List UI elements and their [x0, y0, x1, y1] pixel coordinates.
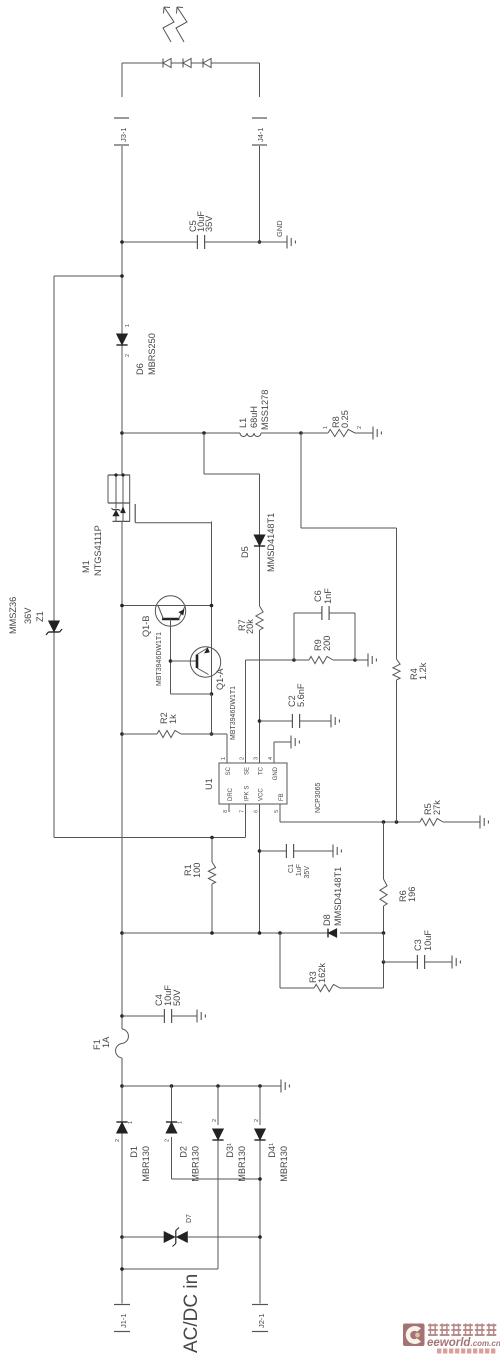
- svg-text:2: 2: [254, 1119, 260, 1122]
- fuse F1: [92, 1029, 128, 1058]
- svg-text:L1: L1: [238, 418, 248, 428]
- node lower/R3: [278, 931, 282, 935]
- svg-text:Q1-A: Q1-A: [215, 668, 225, 690]
- svg-text:1: 1: [323, 426, 329, 429]
- node R4 tap: [299, 431, 303, 435]
- wire base to collector link: [171, 693, 212, 695]
- svg-text:MBR130: MBR130: [141, 1146, 151, 1182]
- svg-text:196: 196: [407, 887, 417, 902]
- svg-text:D6: D6: [135, 363, 145, 375]
- svg-text:1: 1: [125, 324, 131, 327]
- svg-text:VCC: VCC: [259, 788, 265, 801]
- wire D4 branch: [259, 1086, 261, 1304]
- wire LED branch: [122, 63, 260, 97]
- svg-text:1uF: 1uF: [296, 864, 303, 876]
- node D3 junction: [216, 1084, 220, 1088]
- svg-text:MBRS250: MBRS250: [147, 333, 157, 375]
- svg-text:2: 2: [240, 757, 246, 760]
- svg-text:C3: C3: [413, 939, 423, 951]
- node D4/D2 junction: [258, 1177, 262, 1181]
- svg-text:NTGS4111P: NTGS4111P: [93, 525, 103, 576]
- svg-text:M1: M1: [81, 560, 91, 573]
- svg-text:1: 1: [221, 757, 227, 760]
- resistor R7: [237, 606, 263, 634]
- svg-text:MBR130: MBR130: [191, 1146, 201, 1182]
- wire TC path: [204, 433, 260, 763]
- ground GND net at C5: [260, 220, 296, 249]
- TVS diode D7: [164, 1214, 193, 1247]
- LED light emission arrow 2: [176, 7, 187, 42]
- diode D6: [116, 324, 157, 375]
- svg-text:1nF: 1nF: [323, 588, 333, 604]
- svg-text:MBR130: MBR130: [279, 1146, 289, 1182]
- svg-text:NCP3065: NCP3065: [315, 783, 322, 813]
- wire D7 branch: [122, 1236, 260, 1238]
- resistor R3: [280, 933, 384, 992]
- node L1 branch on rail: [120, 431, 124, 435]
- svg-text:Z1: Z1: [35, 611, 45, 622]
- svg-text:GND: GND: [273, 766, 279, 780]
- svg-text:MSS1278: MSS1278: [260, 390, 270, 430]
- wire D3 branch: [122, 1086, 218, 1269]
- wire SE path: [246, 660, 295, 763]
- node C3 junction: [382, 960, 386, 964]
- op-amp U1 NCP3065: [204, 757, 322, 813]
- svg-text:FB: FB: [279, 793, 285, 801]
- wire Q1 collector rail: [122, 605, 212, 607]
- transistor M1 NTGS4111P: [81, 473, 212, 576]
- wire lower vertical: [122, 932, 384, 934]
- wire VCC path: [259, 804, 261, 933]
- svg-text:J2-1: J2-1: [257, 1313, 266, 1328]
- svg-text:D5: D5: [240, 546, 250, 558]
- svg-text:MBR130: MBR130: [237, 1146, 247, 1182]
- pin 4 GND wire: [274, 736, 299, 764]
- svg-text:AC/DC in: AC/DC in: [181, 1274, 202, 1353]
- svg-text:5: 5: [274, 810, 280, 813]
- node D4 junction: [258, 1084, 262, 1088]
- svg-text:eeworld.com.cn: eeworld.com.cn: [427, 1337, 500, 1349]
- svg-text:162k: 162k: [317, 963, 327, 983]
- capacitor C2: [260, 683, 332, 728]
- resistor R8: [301, 410, 373, 436]
- watermark title text: [428, 1324, 496, 1337]
- node Q1-B on rail: [120, 604, 124, 608]
- node D7 top: [120, 1235, 124, 1239]
- svg-text:2: 2: [125, 354, 131, 357]
- svg-text:D8: D8: [322, 914, 332, 926]
- svg-text:36V: 36V: [23, 607, 33, 624]
- svg-text:1: 1: [227, 1143, 233, 1146]
- ground below C2: [331, 715, 339, 728]
- watermark slogan: [437, 1349, 495, 1354]
- watermark url text: [427, 1337, 500, 1349]
- diode D2: [165, 1121, 201, 1182]
- wire J4 to C5 node: [259, 146, 261, 242]
- label AC/DC in: [181, 1274, 202, 1353]
- svg-text:1A: 1A: [101, 1036, 111, 1048]
- svg-text:MMSD4148T1: MMSD4148T1: [266, 513, 276, 572]
- ground below C4: [197, 1010, 205, 1023]
- capacitor C6: [294, 588, 355, 660]
- svg-text:D2: D2: [179, 1146, 189, 1158]
- svg-text:MBT3946DW1T1: MBT3946DW1T1: [230, 686, 237, 740]
- svg-text:10uF: 10uF: [423, 930, 433, 951]
- pin 7 IPK stub: [245, 804, 247, 838]
- wire D2 branch: [172, 1086, 261, 1179]
- ground below C1: [333, 845, 341, 858]
- wire Q1-A emitter/collector run: [211, 522, 213, 695]
- node lower wire on rail: [120, 931, 124, 935]
- node R6 junction on FB: [382, 820, 386, 824]
- svg-text:D7: D7: [186, 1214, 193, 1223]
- node lower/R1: [210, 931, 214, 935]
- node Z1 rail on main rail: [120, 274, 124, 278]
- resistor R1: [183, 838, 216, 934]
- capacitor C5: [122, 211, 260, 249]
- node C1 junction: [258, 849, 262, 853]
- wire Z1 rail: [54, 276, 246, 838]
- resistor R2: [122, 712, 212, 737]
- node R1 tap: [210, 836, 214, 840]
- svg-text:4: 4: [268, 757, 274, 760]
- wire Q1-B base: [170, 619, 172, 694]
- svg-text:D1: D1: [129, 1146, 139, 1158]
- node D3 top: [120, 1267, 124, 1271]
- LED light emission arrow 1: [163, 7, 174, 42]
- node R2 bottom: [210, 732, 214, 736]
- node D7 bottom: [258, 1235, 262, 1239]
- ground below R9: [355, 654, 376, 667]
- svg-text:2: 2: [212, 1119, 218, 1122]
- wire collector to R2 node: [211, 694, 213, 734]
- watermark logo: [403, 1324, 425, 1347]
- svg-text:C1: C1: [288, 864, 295, 873]
- pin 8 DRC stub: [228, 804, 230, 812]
- svg-text:U1: U1: [204, 778, 214, 790]
- svg-text:Q1-B: Q1-B: [141, 616, 151, 637]
- node bridge rail top: [120, 1084, 124, 1088]
- wire FB path: [280, 804, 420, 822]
- node C2 junction: [258, 719, 262, 723]
- diode D8: [322, 867, 343, 938]
- node TC tap: [202, 431, 206, 435]
- svg-text:2: 2: [115, 1139, 121, 1142]
- node C4 on rail: [120, 1014, 124, 1018]
- LED diode middle: [183, 59, 191, 68]
- resistor R5: [420, 800, 480, 826]
- svg-text:5.6nF: 5.6nF: [296, 683, 306, 707]
- connector J3-1: [114, 118, 129, 145]
- diode D1: [115, 1121, 151, 1182]
- resistor R4 feedback: [301, 433, 428, 822]
- svg-text:1k: 1k: [168, 714, 178, 724]
- resistor R6: [380, 822, 417, 933]
- wire R2 node to pin1: [212, 734, 228, 763]
- svg-text:2: 2: [165, 1139, 171, 1142]
- LED diode bottom: [203, 59, 211, 68]
- svg-text:1: 1: [128, 1121, 134, 1124]
- svg-text:68uH: 68uH: [249, 406, 259, 428]
- svg-text:DRC: DRC: [228, 787, 234, 801]
- node C5 top on rail: [120, 240, 124, 244]
- wire main rail left section: [121, 522, 123, 1304]
- wire bridge vertical rail: [122, 1085, 281, 1087]
- svg-text:1.2k: 1.2k: [418, 662, 428, 680]
- svg-text:J1-1: J1-1: [119, 1313, 128, 1328]
- svg-text:SE: SE: [245, 767, 251, 775]
- svg-text:D4: D4: [267, 1146, 277, 1158]
- ground below bridge rail: [281, 1080, 289, 1093]
- node lower/R6: [382, 931, 386, 935]
- svg-text:200: 200: [322, 636, 332, 651]
- inductor L1: [122, 390, 301, 437]
- svg-text:MBT3946DW1T1: MBT3946DW1T1: [156, 632, 163, 686]
- node R4 junction on FB: [395, 820, 399, 824]
- node C5/J4 junction: [258, 240, 262, 244]
- node Q1 base junction: [169, 659, 173, 663]
- svg-text:MMSZ36: MMSZ36: [8, 597, 18, 634]
- connector J2-1: [252, 1305, 268, 1332]
- diode D4: [254, 1119, 289, 1182]
- svg-text:6: 6: [254, 810, 260, 813]
- svg-text:J4-1: J4-1: [256, 127, 265, 142]
- svg-text:D3: D3: [225, 1146, 235, 1158]
- svg-text:IPK S: IPK S: [245, 786, 251, 801]
- node R2 top on rail: [120, 732, 124, 736]
- node D2 junction: [170, 1084, 174, 1088]
- transistor Q1-A: [190, 647, 237, 740]
- svg-text:MMSD4148T1: MMSD4148T1: [333, 867, 343, 926]
- diode D3: [212, 1119, 247, 1182]
- diode D5: [240, 513, 276, 572]
- svg-text:GND: GND: [275, 220, 284, 237]
- node R9 bottom: [353, 658, 357, 662]
- LED diode top: [163, 59, 171, 68]
- svg-text:0.25: 0.25: [340, 410, 350, 428]
- svg-text:27k: 27k: [432, 800, 442, 815]
- svg-text:2: 2: [357, 426, 363, 429]
- svg-text:20k: 20k: [245, 619, 255, 634]
- connector J1-1: [114, 1305, 130, 1332]
- svg-text:7: 7: [240, 810, 246, 813]
- svg-text:TC: TC: [259, 766, 265, 775]
- svg-text:35V: 35V: [204, 215, 214, 232]
- connector J4-1: [252, 118, 267, 145]
- svg-text:J3-1: J3-1: [119, 127, 128, 142]
- ground below R5: [480, 816, 488, 829]
- svg-text:3: 3: [254, 757, 260, 760]
- svg-text:1: 1: [269, 1143, 275, 1146]
- zener diode Z1: [8, 597, 62, 635]
- transistor Q1-B: [141, 596, 186, 686]
- node R9 top: [292, 658, 296, 662]
- wire main rail right section: [121, 63, 123, 475]
- node collector junction: [210, 692, 214, 696]
- node gate/emitter junction: [210, 604, 214, 608]
- ground below C3: [452, 956, 460, 969]
- svg-text:100: 100: [192, 863, 202, 878]
- svg-text:50V: 50V: [172, 989, 182, 1006]
- svg-text:C6: C6: [313, 590, 323, 602]
- node lower/VCC: [258, 931, 262, 935]
- wire C3 node to lower wire: [383, 933, 385, 962]
- svg-text:35V: 35V: [304, 866, 311, 879]
- ground below R8: [373, 427, 381, 440]
- svg-text:SC: SC: [226, 766, 232, 775]
- capacitor C4: [122, 985, 197, 1023]
- resistor R9: [294, 636, 355, 664]
- svg-text:1: 1: [178, 1121, 184, 1124]
- capacitor C1: [260, 844, 334, 878]
- wire Q1-A base: [171, 660, 198, 662]
- svg-text:8: 8: [223, 810, 229, 813]
- capacitor C3: [384, 930, 453, 969]
